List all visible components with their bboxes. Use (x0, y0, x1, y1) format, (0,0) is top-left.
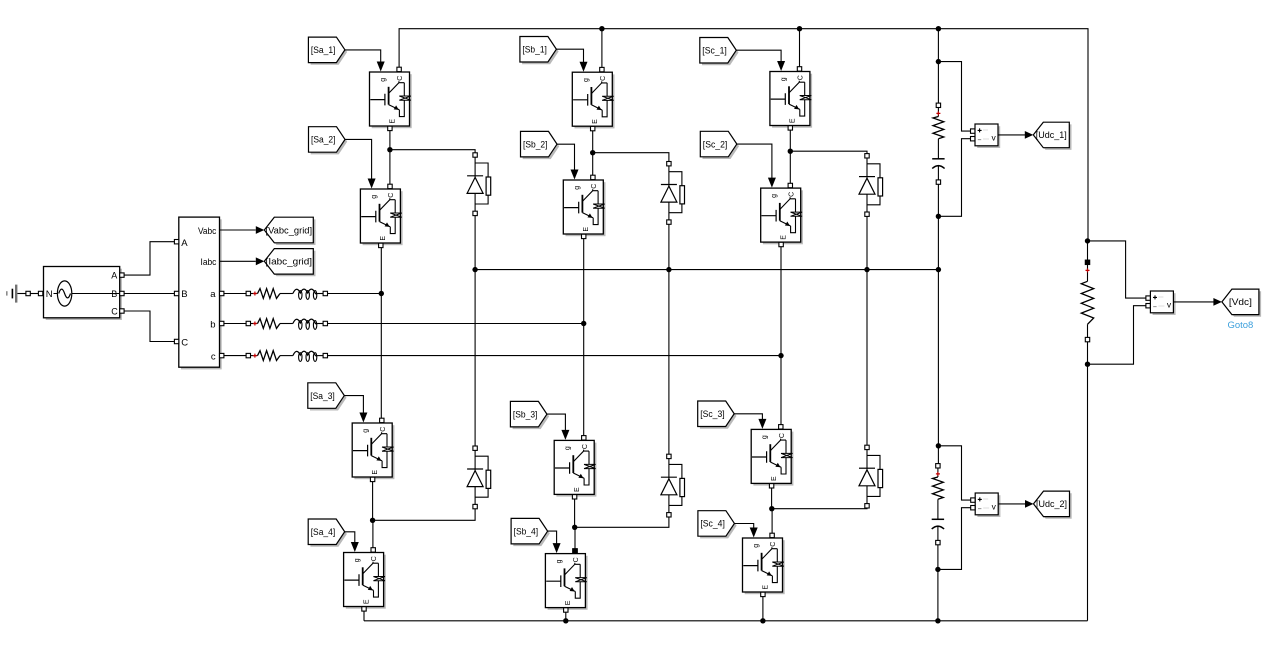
wire c to RL (224, 355, 246, 357)
series RL branch RL phase c (246, 351, 327, 362)
Goto tag Vdc (Goto8) (1222, 289, 1261, 331)
clamp diode Dc1 with RC snubber (859, 154, 883, 217)
clamp diode Db1 with RC snubber (661, 162, 685, 225)
IGBT/Diode block Sc_1 (770, 67, 812, 130)
voltage measurement block VM1 (971, 124, 1001, 148)
wire gate Sb_3 (547, 414, 570, 440)
svg-text:[Sb_1]: [Sb_1] (522, 45, 547, 55)
wire gate Sc_4 (734, 524, 757, 538)
wire gate Sb_2 (557, 144, 579, 179)
svg-text:g: g (574, 186, 581, 190)
wire gate Sc_1 (736, 50, 785, 71)
svg-text:E: E (762, 585, 769, 590)
wire gate Sa_1 (345, 50, 385, 72)
svg-text:E: E (781, 235, 788, 240)
svg-text:Goto8: Goto8 (1227, 320, 1253, 331)
svg-text:E: E (583, 227, 590, 232)
svg-text:v: v (992, 502, 997, 512)
svg-text:g: g (380, 78, 387, 82)
From tag Sb_2 (521, 131, 560, 159)
wire RC2 plus to VM2 (938, 446, 970, 500)
svg-text:g: g (354, 558, 361, 562)
svg-text:E: E (363, 599, 370, 604)
node load top (1085, 238, 1090, 243)
svg-text:[Sc_3]: [Sc_3] (700, 409, 725, 419)
wire Sc1 collector leg (799, 29, 801, 69)
svg-text:C: C (798, 75, 805, 80)
IGBT/Diode block Sb_2 (563, 175, 605, 238)
svg-text:b: b (210, 320, 215, 331)
svg-text:g: g (583, 78, 590, 82)
svg-text:N: N (46, 289, 53, 300)
node midpoint / Db (666, 267, 671, 272)
svg-text:E: E (592, 119, 599, 124)
From tag Sb_4 (511, 518, 550, 546)
wire Sa1-Sa2 leg (387, 127, 392, 189)
wire midpoint to Da2 top (474, 270, 476, 446)
From tag Sa_2 (309, 127, 348, 155)
svg-text:a: a (210, 289, 216, 300)
clamp diode Da1 with RC snubber (467, 153, 491, 216)
clamp diode Db2 with RC snubber (661, 454, 685, 517)
From tag Sc_2 (700, 131, 739, 159)
svg-text:g: g (771, 194, 778, 198)
wire VM1 to Udc_1 (999, 131, 1034, 139)
clamp diode Da2 with RC snubber (467, 446, 491, 509)
svg-text:[Sb_3]: [Sb_3] (513, 409, 538, 419)
wire source C to measurement C (124, 311, 175, 342)
wire a to RL (224, 293, 246, 295)
svg-text:[Sa_3]: [Sa_3] (310, 391, 335, 401)
wire Sb1-Sb2 leg (590, 127, 595, 180)
wire Sb4 emitter to bottom bus (563, 608, 568, 623)
svg-text:C: C (397, 76, 404, 81)
wire Sc2-Sc3 leg (phase c) (780, 242, 782, 429)
port Sb4 collector (solid) (573, 549, 577, 553)
wire DC rail mid section (936, 184, 941, 463)
wire midpoint to Dc2 top (866, 270, 868, 446)
wire DC rail top section (936, 29, 941, 103)
series RL branch RL phase a (246, 289, 327, 300)
svg-text:[Sc_2]: [Sc_2] (703, 139, 728, 149)
svg-text:[Sc_1]: [Sc_1] (702, 46, 727, 56)
svg-text:E: E (771, 476, 778, 481)
wire to Db1 (593, 153, 669, 162)
wire Sb3-Sb4 leg (572, 495, 577, 554)
clamp diode Dc2 with RC snubber (859, 445, 883, 508)
Goto tag Iabc_grid (264, 249, 315, 277)
svg-text:g: g (565, 446, 572, 450)
IGBT/Diode block Sc_2 (761, 183, 803, 246)
svg-text:[Vdc]: [Vdc] (1229, 297, 1252, 307)
wire VM3 to Vdc (1174, 298, 1222, 306)
svg-text:C: C (573, 557, 580, 562)
svg-text:C: C (591, 184, 598, 189)
svg-text:E: E (790, 118, 797, 123)
series RL branch RL phase b (246, 319, 327, 330)
voltage measurement block VM2 (971, 493, 1001, 517)
svg-text:E: E (574, 487, 581, 492)
wire gate Sa_2 (345, 139, 376, 188)
wire gate Sb_1 (556, 49, 587, 71)
wire to Dc1 (790, 151, 867, 153)
wire gate Sa_3 (344, 396, 367, 423)
ground G1 (7, 285, 31, 303)
wire Sa3-Sa4 leg (370, 478, 375, 552)
wire DC rail bottom section (935, 545, 940, 624)
wire load plus to VM3 (1088, 241, 1146, 298)
svg-text:E: E (372, 470, 379, 475)
node top bus / DC rail (936, 26, 941, 31)
svg-text:[Udc_2]: [Udc_2] (1036, 499, 1067, 509)
wire RC1 plus to VM1 (938, 62, 970, 132)
svg-text:A: A (181, 238, 188, 249)
IGBT/Diode block Sb_3 (554, 436, 596, 499)
svg-text:g: g (363, 429, 370, 433)
svg-text:[Sb_4]: [Sb_4] (514, 526, 539, 536)
From tag Sc_1 (700, 38, 739, 66)
From tag Sc_4 (698, 511, 737, 539)
From tag Sa_4 (308, 519, 347, 547)
svg-text:C: C (770, 542, 777, 547)
wire b to RL (224, 323, 246, 325)
wire Sb1 collector leg (601, 29, 603, 70)
wire Sa4 emitter to bottom bus (363, 607, 365, 621)
Goto tag Udc_2 (1034, 491, 1072, 519)
svg-text:g: g (780, 77, 787, 81)
IGBT/Diode block Sa_4 (344, 548, 386, 611)
svg-text:[Sc_4]: [Sc_4] (700, 519, 725, 529)
svg-text:E: E (389, 119, 396, 124)
wire phase c to leg (328, 353, 784, 358)
wire RC1 minus to VM1 (938, 139, 970, 217)
wire Sc1-Sc2 leg (788, 126, 793, 188)
wire Vabc output (220, 226, 264, 234)
svg-text:[Sa_2]: [Sa_2] (311, 135, 336, 145)
wire Sc3-Sc4 leg (769, 484, 774, 538)
svg-text:[Sa_4]: [Sa_4] (311, 527, 336, 537)
DC-link series RC branch RC1 (upper DC-link) (932, 103, 944, 184)
node top bus / Sc1 (797, 26, 802, 31)
wire Da1 bottom to midpoint (474, 216, 476, 270)
IGBT/Diode block Sb_4 (545, 549, 587, 612)
wire gate Sc_3 (734, 414, 766, 429)
svg-text:c: c (211, 352, 216, 363)
svg-text:g: g (371, 195, 378, 199)
svg-text:E: E (565, 600, 572, 605)
node midpoint / DC rail (936, 267, 941, 272)
wire midpoint bus (475, 269, 938, 271)
svg-text:C: C (181, 338, 188, 349)
svg-text:Iabc: Iabc (201, 257, 217, 267)
three-phase AC source block V1 (44, 267, 125, 321)
wire source A to measurement A (124, 242, 175, 275)
wire Sa2-Sa3 leg (phase a) (380, 243, 382, 423)
three-phase V-I measurement block (174, 217, 224, 369)
From tag Sb_1 (520, 37, 559, 65)
wire RC2 minus to VM2 (938, 508, 970, 570)
IGBT/Diode block Sc_3 (751, 425, 793, 488)
wire phase b to leg (328, 321, 587, 326)
voltage measurement block VM3 (1146, 291, 1176, 315)
svg-text:[Iabc_grid]: [Iabc_grid] (266, 257, 313, 267)
svg-text:C: C (371, 556, 378, 561)
IGBT/Diode block Sa_1 (370, 67, 412, 130)
svg-text:g: g (753, 544, 760, 548)
From tag Sa_1 (308, 37, 347, 65)
wire Db2 to leg (575, 517, 669, 527)
svg-text:[Vabc_grid]: [Vabc_grid] (266, 225, 313, 235)
node midpoint / Dc (864, 267, 869, 272)
IGBT/Diode block Sa_3 (352, 418, 394, 481)
svg-text:E: E (380, 236, 387, 241)
svg-text:v: v (991, 133, 996, 143)
wire top DC bus (399, 29, 1088, 241)
wire to Da1 (390, 150, 475, 153)
wire VM2 to Udc_2 (999, 500, 1034, 508)
wire gate Sb_4 (548, 531, 561, 553)
From tag Sa_3 (308, 383, 347, 411)
wire midpoint to Db2 top (668, 270, 670, 455)
wire gate Sa_4 (345, 532, 359, 552)
svg-text:C: C (388, 193, 395, 198)
svg-text:B: B (181, 289, 187, 300)
svg-text:C: C (788, 192, 795, 197)
wire Dc2 to leg (772, 505, 867, 508)
IGBT/Diode block Sa_2 (360, 184, 402, 247)
wire phase a to leg (328, 291, 384, 296)
svg-text:C: C (600, 76, 607, 81)
node midpoint / Da (472, 267, 477, 272)
wire load top lead (1087, 241, 1089, 260)
From tag Sb_3 (510, 401, 549, 429)
svg-text:[Udc_1]: [Udc_1] (1036, 130, 1067, 140)
wire bottom DC bus (364, 620, 1088, 622)
svg-text:g: g (556, 559, 563, 563)
wire Da2 to leg (373, 508, 476, 521)
load resistor Rload (1081, 260, 1093, 342)
wire Sb2-Sb3 leg (phase b) (583, 234, 585, 440)
wire load minus to VM3 (1088, 306, 1146, 365)
svg-text:C: C (380, 427, 387, 432)
DC-link series RC branch RC2 (lower DC-link) (932, 464, 944, 545)
svg-text:[Sa_1]: [Sa_1] (311, 45, 336, 55)
svg-text:g: g (762, 435, 769, 439)
svg-text:C: C (779, 433, 786, 438)
svg-text:B: B (111, 289, 117, 299)
wire Iabc output (220, 257, 264, 265)
node top bus / Sb1 (599, 26, 604, 31)
wire load bottom lead (1085, 342, 1090, 621)
wire Dc1 bottom to midpoint (866, 216, 868, 269)
svg-text:[Sb_2]: [Sb_2] (523, 139, 548, 149)
svg-text:Vabc: Vabc (198, 226, 217, 236)
svg-text:A: A (111, 271, 117, 281)
wire Sc4 emitter to bottom bus (760, 593, 765, 624)
wire ground to source N (30, 291, 43, 295)
svg-text:C: C (111, 307, 118, 317)
From tag Sc_3 (698, 401, 737, 429)
svg-text:C: C (582, 444, 589, 449)
Goto tag Vabc_grid (264, 217, 315, 245)
wire source B to measurement B (124, 293, 175, 295)
wire Db1 bottom to midpoint (668, 224, 670, 269)
Goto tag Udc_1 (1033, 122, 1071, 150)
wire gate Sc_2 (737, 144, 776, 188)
IGBT/Diode block Sb_1 (572, 67, 614, 130)
IGBT/Diode block Sc_4 (743, 533, 785, 596)
